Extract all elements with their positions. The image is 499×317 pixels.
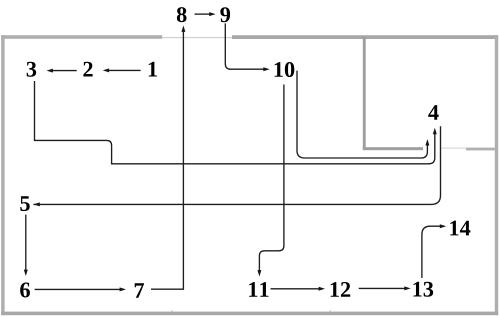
arrowhead right at 14 bbox=[440, 224, 446, 228]
wire 5 down to 6 bbox=[25, 215, 27, 271]
arrowhead up at 8 bbox=[181, 26, 185, 32]
arrowhead right at 10 bbox=[263, 67, 269, 71]
wire 6 to 7 bbox=[35, 288, 121, 290]
outer frame top border left segment bbox=[1, 35, 162, 39]
wire 12 to 13 bbox=[359, 287, 406, 289]
inner window left edge bbox=[363, 37, 366, 151]
wire 11 to 12 bbox=[271, 288, 320, 290]
arrowhead down at 11 bbox=[257, 270, 261, 276]
label 4 bbox=[428, 105, 438, 120]
arrowhead left at 5 bbox=[33, 202, 39, 206]
label 3 bbox=[27, 62, 37, 77]
arrowhead down at 6 bbox=[24, 270, 28, 276]
remnant nick on bottom border left bbox=[171, 310, 172, 312]
arrowhead left at 2 bbox=[103, 68, 109, 72]
arrowhead up below 4 middle bbox=[433, 128, 437, 134]
arrow 8 to 9 wire bbox=[195, 13, 211, 15]
arrowhead right at 9 bbox=[209, 12, 215, 16]
arrowhead left at 3 bbox=[47, 69, 53, 73]
wire from 7 up to 8 bbox=[151, 32, 183, 290]
remnant nick on bottom border right bbox=[330, 310, 331, 312]
arrow 1 to 2 wire bbox=[108, 69, 140, 71]
label 2 bbox=[83, 62, 92, 77]
label 1 bbox=[149, 62, 157, 77]
wire 13 up-right to 14 bbox=[422, 226, 441, 278]
wire 9 down-right to 10 bbox=[225, 23, 264, 69]
outer frame right border bbox=[495, 35, 498, 315]
label 6 bbox=[20, 283, 30, 298]
label 7 bbox=[135, 283, 144, 298]
wire from 3 stepped to arrow below 4 bbox=[35, 81, 435, 164]
label 5 bbox=[20, 196, 29, 211]
wire 10 line A down to 11 bbox=[259, 85, 284, 272]
label 8 bbox=[177, 7, 187, 22]
arrowhead right at 13 bbox=[404, 286, 410, 290]
label 13 bbox=[413, 282, 433, 297]
label 14 bbox=[450, 221, 470, 236]
outer frame top border right segment bbox=[232, 35, 498, 39]
wire 10 line B down-right to arrow below 4 bbox=[297, 71, 427, 158]
label 11 bbox=[249, 282, 268, 297]
inner window bottom edge right part bbox=[466, 148, 495, 151]
arrowhead right at 7 bbox=[120, 287, 126, 291]
label 9 bbox=[220, 7, 230, 22]
outer frame left border bbox=[1, 35, 4, 315]
arrowhead right at 12 bbox=[319, 287, 325, 291]
arrowhead up below 4 left bbox=[425, 139, 429, 145]
arrow 2 to 3 wire bbox=[52, 70, 77, 72]
inner window bottom edge left part bbox=[363, 147, 423, 150]
label 10 bbox=[275, 62, 295, 77]
outer frame top border thin light remnant bbox=[162, 37, 232, 38]
label 12 bbox=[331, 282, 351, 297]
inner window bottom edge faint middle part bbox=[442, 147, 467, 148]
wire from 5 right and up below 4 bbox=[33, 126, 440, 204]
outer frame bottom border bbox=[1, 312, 498, 316]
